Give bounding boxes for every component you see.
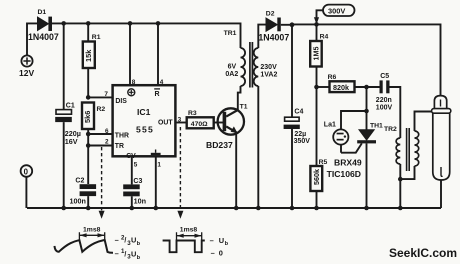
- capacitor C2 100n: [80, 184, 97, 196]
- svg-text:C2: C2: [75, 178, 84, 185]
- svg-text:IC1: IC1: [137, 107, 151, 117]
- node: rail dot T1 emitter: [234, 206, 239, 211]
- fluorescent tube body: [433, 113, 450, 180]
- wire: pin 6 stub: [88, 133, 112, 135]
- capacitor C3 10n: [123, 184, 140, 196]
- label: Ub: [210, 236, 229, 247]
- svg-text:5k6: 5k6: [83, 111, 92, 123]
- wire: R3 to T1 base: [214, 122, 224, 124]
- wire: La1 bottom to gate path: [340, 145, 342, 153]
- svg-text:1VA2: 1VA2: [260, 72, 277, 79]
- wire: La1 top stub to TH1 node: [341, 111, 367, 129]
- svg-text:U: U: [219, 236, 224, 245]
- svg-text:2: 2: [105, 139, 109, 146]
- wire: tube bottom to rail: [440, 180, 442, 208]
- ground rail: [27, 207, 441, 209]
- glow lamp La1: [333, 129, 348, 144]
- wire: R4 bottom to R5 top (divider line): [316, 67, 318, 167]
- svg-text:820k: 820k: [333, 83, 349, 92]
- waveform 2: square wave at OUT: [163, 241, 205, 253]
- svg-text:300V: 300V: [328, 6, 345, 15]
- node: junction La1/TH1: [364, 109, 369, 114]
- svg-text:–: –: [115, 235, 119, 244]
- transformer TR2 core: [407, 128, 410, 171]
- wire: TR1 secondary bottom to rail: [257, 86, 259, 208]
- svg-text:TR2: TR2: [384, 126, 397, 133]
- node: rail dot C1: [61, 206, 66, 211]
- svg-text:1M5: 1M5: [312, 47, 321, 61]
- wire: 0 terminal to rail: [25, 177, 27, 208]
- svg-text:1: 1: [157, 161, 161, 168]
- wire: C3 to rail: [131, 196, 133, 208]
- svg-text:230V: 230V: [260, 64, 277, 71]
- wire: R1 from bus: [87, 23, 89, 41]
- svg-text:TR1: TR1: [224, 30, 237, 37]
- svg-text:TR: TR: [115, 143, 124, 150]
- svg-text:100V: 100V: [376, 104, 393, 111]
- capacitor C5 220n 100V: [380, 80, 390, 93]
- wire: pin 2 stub: [88, 145, 112, 147]
- transformer TR1 secondary winding 230V: [254, 48, 259, 86]
- svg-text:–: –: [211, 249, 215, 258]
- wire: T1 collector to TR1 primary bottom: [238, 86, 241, 110]
- svg-text:7: 7: [104, 91, 108, 98]
- wire: OUT pin 3 stub: [175, 122, 186, 124]
- node: pin 2 junction: [86, 143, 91, 148]
- wire: pin 1 to rail: [155, 156, 157, 208]
- capacitor C4 (electrolytic 22u 350V): [284, 117, 300, 129]
- node: rail dot TR2: [398, 206, 403, 211]
- svg-text:C5: C5: [380, 73, 389, 80]
- node: bus junction pin 8: [128, 21, 133, 26]
- node: rail dot R5: [314, 206, 319, 211]
- transformer TR2 right winding: [415, 131, 419, 166]
- svg-text:T1: T1: [240, 104, 248, 111]
- wire: C4 branch from D2 junction: [291, 25, 293, 117]
- dashed probe line at pin 3 OUT: [177, 127, 183, 219]
- wire: C2 to rail: [87, 196, 89, 208]
- wire: R1 bottom to DIS node: [87, 68, 89, 97]
- label: 2/3 Ub: [115, 234, 141, 247]
- transistor T1 BD237: [218, 108, 244, 134]
- wire: C5 right lead down to TR2: [390, 87, 401, 138]
- svg-text:/: /: [124, 251, 126, 258]
- svg-text:555: 555: [136, 125, 154, 135]
- wire: 300V stub with arrow to bus: [314, 10, 323, 24]
- thyristor TH1 BRX49/TIC106D: [341, 130, 376, 208]
- node: bus junction pin 4: [156, 21, 161, 26]
- svg-text:R3: R3: [188, 110, 197, 117]
- resistor R1 15k: [83, 42, 95, 69]
- node: rail dot C2: [86, 206, 91, 211]
- svg-text:b: b: [137, 241, 141, 247]
- node: bus junction 300V / R4: [314, 22, 319, 27]
- svg-text:12V: 12V: [19, 68, 34, 78]
- transformer TR1 core: [250, 42, 253, 88]
- svg-text:BRX49: BRX49: [334, 157, 362, 167]
- wire: left lead from 12V terminal to D1 anode: [27, 23, 38, 55]
- wire: TR1 secondary top to D2 anode: [258, 25, 266, 48]
- node: bus junction R1 branch: [86, 21, 91, 26]
- terminal: 300V oval: [323, 5, 355, 16]
- wire: C1 to ground rail: [63, 122, 65, 208]
- wire: C1 branch from bus: [63, 23, 65, 109]
- wire: R2 bottom down through pin6/pin2 to C2: [87, 129, 89, 184]
- wire: 300V bus to fluorescent tube top: [292, 24, 441, 95]
- svg-text:10n: 10n: [134, 197, 146, 206]
- svg-text:La1: La1: [324, 122, 336, 129]
- svg-text:0: 0: [24, 167, 29, 176]
- wire: +12V top bus from D1 cathode to TR1 primary top: [52, 23, 241, 48]
- wire: D2 cathode to bus junction: [281, 24, 292, 26]
- svg-text:C4: C4: [294, 108, 303, 115]
- svg-text:C1: C1: [66, 103, 75, 110]
- label: 1/3 Ub: [115, 248, 141, 261]
- svg-text:D1: D1: [38, 9, 47, 16]
- svg-text:U: U: [131, 249, 136, 258]
- capacitor C1 (electrolytic 220u 16V): [55, 110, 72, 123]
- waveform 1: sawtooth at pin 2/6: [55, 240, 114, 253]
- svg-text:R: R: [155, 91, 160, 98]
- svg-text:4: 4: [160, 79, 164, 86]
- svg-text:22µ: 22µ: [294, 131, 306, 138]
- wire: T1 emitter to rail: [235, 132, 237, 208]
- svg-text:SeekIC.com: SeekIC.com: [389, 246, 457, 260]
- node: rail dot TH1: [364, 206, 369, 211]
- resistor R5 560k: [310, 166, 322, 191]
- transformer TR1 primary winding 6V 0A2: [241, 48, 246, 86]
- terminal: 0 volt: [21, 165, 33, 177]
- resistor R6 820k: [330, 81, 355, 92]
- label: 0: [211, 249, 223, 258]
- IC1 555 body: [113, 85, 176, 156]
- diode D1: [38, 17, 53, 31]
- wire: R5 to rail: [316, 191, 318, 208]
- svg-text:D2: D2: [266, 11, 275, 18]
- wire: pin 4 stub from bus: [157, 23, 159, 85]
- node: rail dot TR1 secondary: [256, 206, 261, 211]
- wire: pin 7 stub to IC1: [88, 96, 112, 98]
- svg-text:DIS: DIS: [115, 98, 127, 105]
- svg-text:b: b: [225, 241, 229, 247]
- svg-text:1N4007: 1N4007: [258, 32, 289, 42]
- node: TR2 bottom junction: [398, 177, 403, 182]
- svg-text:16V: 16V: [65, 137, 78, 146]
- wire: R4 from bus: [316, 24, 318, 41]
- svg-text:220n: 220n: [376, 97, 392, 104]
- svg-text:100n: 100n: [70, 197, 86, 206]
- svg-text:6V: 6V: [228, 64, 237, 71]
- fluorescent tube top electrode dome: [434, 96, 446, 109]
- svg-text:–: –: [210, 236, 214, 245]
- fluorescent tube bottom filament: [441, 167, 443, 176]
- wire: TR2 windings bottoms joined: [400, 164, 414, 208]
- svg-text:OUT: OUT: [158, 119, 173, 126]
- diode D2: [266, 18, 281, 32]
- transformer TR2 left winding: [396, 138, 400, 164]
- waveform 1 measure: 1ms8: [79, 232, 104, 241]
- svg-text:0A2: 0A2: [225, 71, 238, 78]
- svg-text:THR: THR: [115, 132, 129, 139]
- symbol: plus in circle (pin 8): [128, 89, 135, 96]
- node: pin 7 junction: [86, 95, 91, 100]
- node: pin 6 junction: [86, 132, 91, 137]
- svg-text:C3: C3: [133, 178, 142, 185]
- svg-text:15k: 15k: [84, 49, 93, 62]
- terminal: 12V plus: [21, 55, 32, 66]
- node: rail dot C3: [130, 206, 135, 211]
- svg-text:TH1: TH1: [370, 123, 383, 130]
- symbol: R-bar (pin 4 reset): [154, 89, 160, 98]
- svg-text:TIC106D: TIC106D: [327, 169, 361, 179]
- node: TH1 anode junction: [364, 85, 369, 90]
- fluorescent tube cap flange: [432, 109, 451, 114]
- svg-text:1ms8: 1ms8: [180, 227, 198, 234]
- resistor R4 1M5: [310, 41, 322, 67]
- resistor R2 5k6: [82, 103, 94, 130]
- wire: C4 to rail: [291, 129, 293, 208]
- svg-text:8: 8: [132, 79, 136, 86]
- node: rail dot C4: [290, 206, 295, 211]
- svg-text:1ms8: 1ms8: [83, 227, 101, 234]
- wire: TR2 right winding top to tube flange: [415, 112, 432, 132]
- svg-text:b: b: [137, 255, 141, 261]
- svg-text:560k: 560k: [312, 169, 321, 185]
- svg-text:R5: R5: [319, 159, 328, 166]
- svg-text:BD237: BD237: [206, 140, 233, 150]
- svg-text:350V: 350V: [294, 138, 311, 145]
- svg-text:R4: R4: [320, 34, 329, 41]
- svg-text:U: U: [131, 236, 136, 245]
- symbol: internal ground near pin 1: [151, 150, 161, 156]
- svg-text:1N4007: 1N4007: [28, 32, 59, 42]
- svg-text:6: 6: [105, 128, 109, 135]
- svg-text:/: /: [124, 238, 126, 245]
- waveform 2 measure: 1ms8: [177, 232, 202, 240]
- svg-text:R1: R1: [92, 34, 101, 41]
- wire: R6 right lead to C5: [355, 86, 380, 88]
- svg-text:R2: R2: [97, 106, 106, 113]
- svg-text:0: 0: [219, 249, 223, 258]
- fluorescent tube top filament: [440, 100, 442, 107]
- svg-text:5: 5: [134, 161, 138, 168]
- node: R6 junction on divider: [314, 85, 319, 90]
- wire: R6 left lead: [317, 86, 330, 88]
- node: rail dot pin1: [154, 206, 159, 211]
- wire: pin 5 stub to C3: [131, 156, 133, 184]
- resistor R3 470 ohm: [187, 117, 214, 128]
- svg-text:R6: R6: [328, 74, 337, 81]
- node: bus junction D2 cathode / C4: [290, 22, 295, 27]
- dashed probe line at pin 2: [99, 147, 105, 219]
- svg-text:–: –: [115, 249, 119, 258]
- wire: TH1 anode from C5/R6 node: [366, 87, 368, 130]
- svg-text:470Ω: 470Ω: [191, 121, 208, 128]
- node: bus junction C1 branch: [61, 21, 66, 26]
- wire: pin 8 stub from bus: [129, 23, 131, 85]
